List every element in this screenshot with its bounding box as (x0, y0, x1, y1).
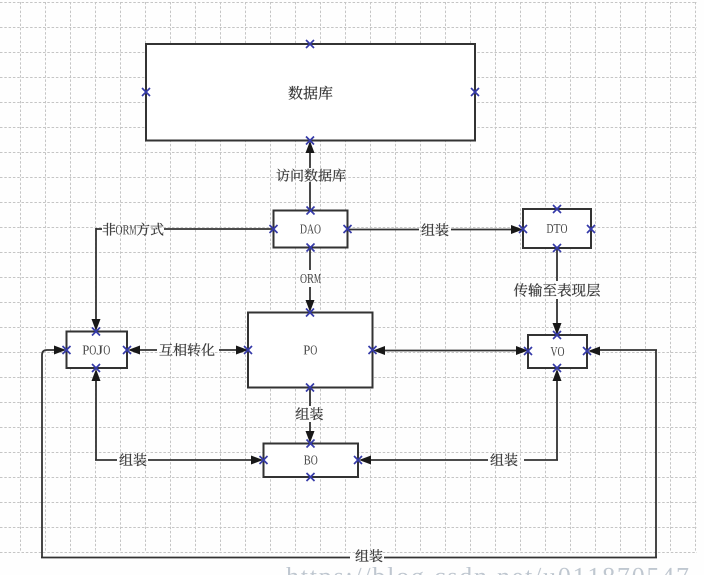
connection point PO top (306, 309, 314, 317)
connection point POJO left (63, 346, 71, 354)
connection point POJO bottom (92, 364, 100, 372)
label 组装 bottom (356, 549, 383, 562)
box DAO (274, 211, 348, 248)
connection point DTO bottom (553, 244, 561, 252)
arrowhead left into VO right (588, 347, 600, 356)
label 传输至表现层 (514, 283, 600, 297)
connection point POJO top (92, 328, 100, 336)
wire DAO-PO vertical (ORM) (309, 247, 311, 303)
connection point BO right (354, 456, 362, 464)
connection point VO top (553, 331, 561, 339)
wire database-DAO vertical (309, 143, 311, 211)
connection point DAO bottom (307, 244, 315, 252)
arrowhead right into BO left (251, 456, 263, 465)
label 组装 DAO-DTO (422, 223, 449, 236)
arrowhead down into BO top (306, 431, 315, 443)
connection point database left (142, 88, 150, 96)
arrowhead right into VO left (516, 346, 528, 355)
connection point VO bottom (553, 364, 561, 372)
connection point DAO right (344, 225, 352, 233)
label PO (304, 345, 317, 354)
wire PO-VO horizontal (381, 350, 519, 352)
arrowhead up into database bottom (306, 141, 315, 153)
arrowhead left into BO right (359, 456, 371, 465)
wire POJO-BO elbow (95, 377, 255, 460)
connection point DTO top (553, 205, 561, 213)
connection point BO top (307, 440, 315, 448)
label 非ORM方式 part2 (116, 225, 136, 234)
connection point DTO left (519, 225, 527, 233)
label 互相转化 (160, 343, 215, 356)
connection point database right (471, 88, 479, 96)
arrowhead down into VO top (553, 323, 562, 335)
box PO (248, 313, 373, 388)
connection point DTO right (587, 225, 595, 233)
wire DAO-DTO horizontal (347, 229, 514, 231)
connection point database top (306, 40, 314, 48)
arrowhead left into POJO right (128, 346, 140, 355)
connection point DAO left (270, 225, 278, 233)
connection point PO left (244, 346, 252, 354)
label 访问数据库 (277, 169, 346, 182)
arrowhead up into POJO bottom (92, 369, 101, 381)
wire VO-BO elbow (367, 377, 558, 460)
connection point PO bottom (306, 384, 314, 392)
connection point VO left (524, 347, 532, 355)
label 组装 VO-BO (491, 453, 518, 466)
wire DTO-VO vertical (556, 248, 558, 326)
label ORM (300, 274, 320, 283)
label POJO (83, 345, 110, 354)
label 非ORM方式 part1 (103, 223, 116, 236)
label 非ORM方式 part3 (137, 223, 164, 236)
arrowhead down into PO top (306, 300, 315, 312)
box database (146, 44, 475, 141)
connection point BO left (260, 456, 268, 464)
label 组装 PO-BO (296, 407, 323, 420)
connection point BO bottom (307, 473, 315, 481)
box POJO (67, 332, 128, 369)
label BO (304, 455, 317, 464)
connection point VO right (583, 347, 591, 355)
label 组装 POJO-BO (120, 453, 147, 466)
connection point PO right (369, 346, 377, 354)
arrowhead down into POJO top (92, 319, 101, 331)
box DTO (523, 209, 591, 248)
arrowhead right into DTO left (511, 225, 523, 234)
wire long loop POJO-VO via bottom (41, 350, 657, 558)
connection point POJO right (123, 346, 131, 354)
label DAO (300, 224, 320, 233)
box BO (264, 444, 359, 478)
arrowhead left into PO right (373, 346, 385, 355)
wire non-ORM path DAO left to POJO top (96, 228, 274, 322)
label VO (551, 347, 564, 356)
connection point database bottom (306, 137, 314, 145)
box VO (528, 335, 587, 368)
label 数据库 (289, 86, 333, 100)
connection point DAO top (307, 207, 315, 215)
watermark text (286, 567, 688, 575)
arrowhead right into POJO left (54, 346, 66, 355)
arrowhead right into PO left (236, 346, 248, 355)
wire PO-BO vertical (309, 388, 311, 435)
arrowhead up into VO bottom (553, 369, 562, 381)
label DTO (547, 224, 567, 233)
wire POJO-PO horizontal (mutual) (136, 349, 239, 351)
